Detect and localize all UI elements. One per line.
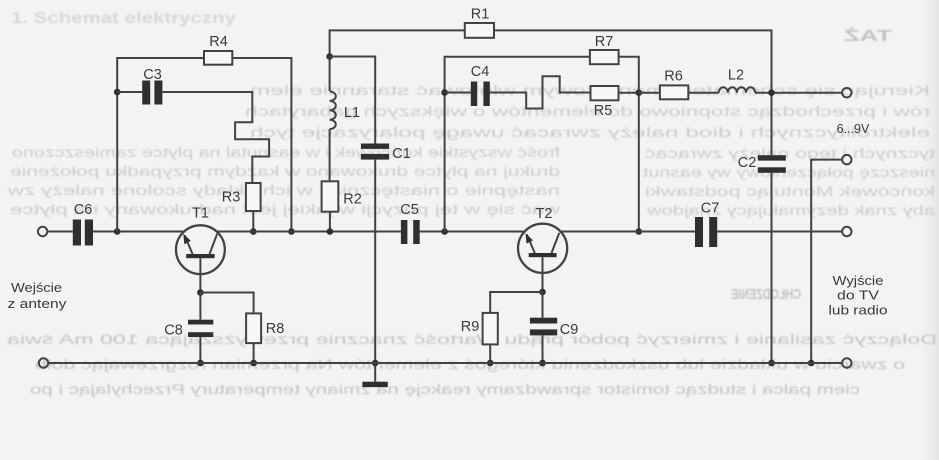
wire node to R6 (639, 92, 660, 94)
node C1 branch / rail (372, 360, 379, 367)
wire C2 down to rail (771, 173, 773, 363)
svg-text:drukuj na płytce drukowano w k: drukuj na płytce drukowano w każdym przy… (10, 164, 560, 179)
svg-text:R3: R3 (222, 190, 241, 206)
wire power - terminal down to rail (811, 160, 842, 363)
node branch / main line (636, 228, 643, 235)
svg-text:nieszczę połączeniowy wy easnu: nieszczę połączeniowy wy easnut (643, 165, 935, 180)
svg-text:C6: C6 (74, 202, 93, 218)
wire C7 to output terminal (717, 231, 842, 233)
capacitor C2 (758, 155, 786, 173)
resistor R8 (246, 313, 261, 343)
wire input to C6 (47, 231, 73, 233)
wire top loop from L1 node to R1 (330, 30, 465, 56)
node R5/R6 (636, 89, 643, 96)
svg-text:końcówek Montując podstawki: końcówek Montując podstawki (645, 184, 935, 199)
svg-text:C7: C7 (701, 201, 720, 217)
resistor R3 (246, 183, 261, 211)
svg-text:R9: R9 (461, 319, 480, 335)
capacitor C5 (401, 220, 420, 244)
wire C1 down through rail to ground (374, 160, 376, 382)
wire main line T1 to T2 (217, 231, 401, 233)
resistor R2 (322, 181, 339, 211)
node L2 / supply vertical (768, 89, 775, 96)
node at C6 / feedback branch (114, 228, 121, 235)
wire to C4 (445, 92, 471, 94)
wire C3 to R3 (staircase jog) (162, 92, 269, 183)
svg-text:frość wszystkie końcówek i w e: frość wszystkie końcówek i w easnutal na… (12, 145, 560, 160)
wire T1 base to C8 (199, 293, 201, 320)
power terminal + (6...9V) (842, 88, 851, 97)
svg-text:R2: R2 (343, 192, 362, 208)
capacitor C1 (361, 144, 389, 160)
svg-text:R6: R6 (664, 69, 683, 85)
svg-text:1. Schemat elektryczny: 1. Schemat elektryczny (11, 10, 236, 27)
svg-text:elektrolitycznych i diod należ: elektrolitycznych i diod należy zwracać … (250, 125, 930, 140)
svg-text:R7: R7 (595, 34, 614, 50)
node C3 tap (114, 89, 121, 96)
svg-text:C5: C5 (400, 202, 419, 218)
bottom rail wire (48, 362, 842, 364)
wire C4 to R5 (staircase jog) (490, 76, 591, 108)
node R9 / rail (487, 360, 494, 367)
node C4 tap (441, 89, 448, 96)
node power return / rail (808, 360, 815, 367)
node T2 base junction (539, 289, 546, 296)
power terminal - (842, 155, 851, 164)
output terminal bottom (842, 358, 851, 367)
wire C8 to bottom rail (199, 337, 201, 363)
svg-text:R5: R5 (594, 103, 613, 119)
resistor R4 (204, 51, 232, 65)
node L1 top (326, 53, 333, 60)
resistor R6 (660, 85, 688, 99)
node supply vertical / rail (768, 360, 775, 367)
svg-text:C3: C3 (143, 67, 162, 83)
wire R7 right down to main line (619, 57, 639, 232)
capacitor C7 (695, 217, 717, 247)
node T1 base junction (197, 289, 204, 296)
wire R6 to L2 (688, 92, 718, 94)
svg-text:6...9V: 6...9V (837, 122, 870, 136)
svg-text:T1: T1 (192, 205, 209, 221)
input terminal bottom (39, 358, 48, 367)
svg-text:C9: C9 (560, 322, 579, 338)
svg-text:R4: R4 (209, 34, 228, 50)
input terminal top (Wejście) (38, 227, 47, 236)
transistor T1 (176, 225, 225, 292)
transistor T2 (518, 224, 567, 292)
node C9 / rail (539, 360, 546, 367)
svg-text:C4: C4 (471, 64, 490, 80)
svg-text:CHŁODZENIE: CHŁODZENIE (731, 286, 801, 303)
wire main line C5 to T2 (420, 231, 525, 233)
node C8 / rail (197, 360, 204, 367)
node R4 / main line (288, 228, 295, 235)
wire L2 to power terminal (755, 92, 842, 94)
ground (362, 382, 387, 387)
wire R1 to right corner (494, 30, 772, 155)
wire R4 right down to main line (232, 58, 291, 232)
svg-text:następnie o niastęczniać w ich: następnie o niastęczniać w ich układy sc… (8, 183, 560, 198)
svg-text:T2: T2 (536, 206, 553, 222)
node R8 / rail (250, 360, 257, 367)
wire R3 to main line (252, 211, 254, 232)
svg-text:C1: C1 (392, 146, 411, 162)
resistor R9 (483, 313, 498, 345)
svg-text:R8: R8 (266, 321, 285, 337)
svg-text:Wejście: Wejście (11, 280, 62, 295)
svg-text:Wyjście: Wyjście (833, 273, 884, 288)
svg-text:aby znak dezymałujący znajdow: aby znak dezymałujący znajdow (647, 203, 935, 218)
resistor R1 (465, 23, 494, 38)
node R2 / main line (327, 228, 334, 235)
inductor L2 (719, 87, 755, 92)
capacitor C3 (142, 81, 162, 105)
capacitor C6 (73, 220, 93, 246)
wire base junction to R8 (200, 293, 253, 314)
svg-text:o zwarciu w układzie lub uszko: o zwarciu w układzie lub uszkodzeniu któ… (35, 357, 905, 372)
svg-text:ciem palca i studząc tomistor: ciem palca i studząc tomistor sprawdzamy… (30, 382, 860, 397)
capacitor C9 (530, 318, 557, 336)
svg-text:C8: C8 (164, 323, 183, 339)
svg-text:wać się w tej pozycji w jakiej: wać się w tej pozycji w jakiej jest nadr… (10, 202, 562, 217)
wire R8 to bottom rail (253, 343, 255, 363)
wire L1 node to C1 (330, 57, 376, 144)
wire main line T2 to C7 (560, 231, 695, 233)
svg-text:lub radio: lub radio (829, 303, 888, 318)
wire to C3 (117, 91, 142, 93)
wire R2 to main line (329, 212, 331, 232)
node R3 / main line (250, 228, 257, 235)
svg-text:tycznych i tego należy zwracać: tycznych i tego należy zwracać (645, 146, 935, 161)
svg-text:C2: C2 (738, 155, 757, 171)
wire feedback vertical left (117, 58, 204, 232)
output terminal top (Wyjście) (842, 227, 851, 236)
wire C4 branch vertical (445, 57, 590, 232)
svg-text:do TV: do TV (837, 288, 879, 303)
svg-text:z anteny: z anteny (8, 296, 68, 311)
wire base junction to R9 (490, 292, 542, 313)
node C4 branch / main line (441, 228, 448, 235)
wire R9 to rail (489, 344, 491, 363)
svg-text:TAŻ: TAŻ (844, 27, 892, 45)
resistor R7 (590, 50, 619, 64)
wire T2 base to C9 (542, 292, 544, 318)
inductor L1 (330, 57, 336, 182)
wire C9 to rail (542, 335, 544, 363)
wire R5 to node (619, 92, 639, 94)
capacitor C4 (471, 82, 490, 107)
capacitor C8 (188, 320, 213, 337)
resistor R5 (591, 86, 619, 100)
svg-text:L1: L1 (344, 105, 360, 121)
svg-text:L2: L2 (728, 68, 744, 84)
svg-text:R1: R1 (471, 7, 490, 23)
wire C6 to T1 (93, 231, 184, 233)
